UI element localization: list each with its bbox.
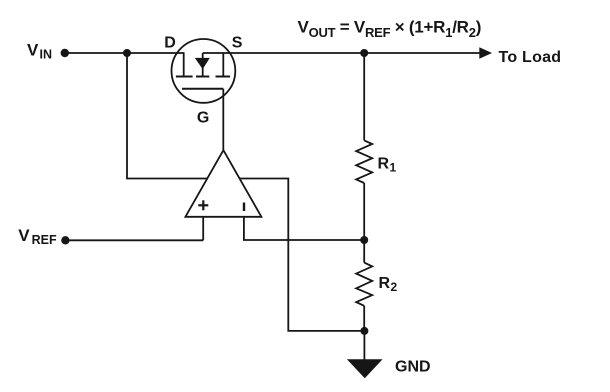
wire VIN to drain [65, 52, 185, 54]
label VREF [18, 226, 57, 247]
wire source to output node and to load [203, 52, 480, 54]
wire inverting input to feedback node [244, 217, 364, 240]
svg-text:V: V [18, 226, 30, 245]
svg-text:R: R [379, 275, 391, 292]
svg-text:G: G [197, 109, 209, 126]
label formula VOUT = VREF x (1+R1/R2) [298, 17, 482, 40]
transistor pass PMOS [172, 39, 236, 103]
svg-text:To Load: To Load [499, 49, 562, 66]
label pin G [197, 109, 209, 126]
svg-text:GND: GND [395, 358, 431, 375]
junction feedback node [360, 236, 368, 244]
wire noninverting input [202, 217, 204, 241]
svg-text:IN: IN [40, 48, 53, 62]
label To Load [499, 49, 562, 66]
terminal VIN [61, 49, 69, 57]
svg-text:VOUT = VREF × (1+R1/R2): VOUT = VREF × (1+R1/R2) [298, 17, 482, 40]
svg-text:REF: REF [32, 233, 57, 247]
wire R1 to feedback node [363, 183, 365, 240]
svg-text:1: 1 [390, 161, 397, 175]
label - input [243, 203, 245, 212]
wire op-amp negative supply to ground node [240, 179, 365, 331]
junction input node [123, 49, 131, 57]
ground GND symbol [347, 359, 383, 378]
svg-text:D: D [164, 34, 176, 51]
label GND [395, 358, 431, 375]
wire input node to op-amp positive supply [127, 53, 207, 179]
junction ground node [360, 327, 368, 335]
arrow to load [479, 47, 492, 58]
terminal VREF [61, 236, 69, 244]
svg-text:V: V [27, 41, 39, 60]
label R1 [378, 155, 397, 174]
resistor R2 [356, 263, 372, 306]
wire R2 to ground node [363, 306, 365, 331]
wire gate to op-amp output [222, 89, 224, 150]
wire VREF to op-amp [65, 239, 203, 241]
svg-text:R: R [378, 155, 390, 172]
label VIN [27, 41, 52, 62]
label + input [198, 200, 208, 210]
label pin S [232, 34, 243, 51]
wire feedback node to R2 [363, 240, 365, 263]
junction output node [360, 49, 368, 57]
svg-text:S: S [232, 34, 243, 51]
label pin D [164, 34, 176, 51]
wire ground node to GND symbol [363, 331, 365, 360]
label R2 [379, 275, 398, 294]
op-amp error amplifier U1 [185, 150, 261, 217]
svg-text:2: 2 [391, 280, 398, 294]
wire output node to R1 [363, 53, 365, 140]
resistor R1 [356, 140, 372, 183]
